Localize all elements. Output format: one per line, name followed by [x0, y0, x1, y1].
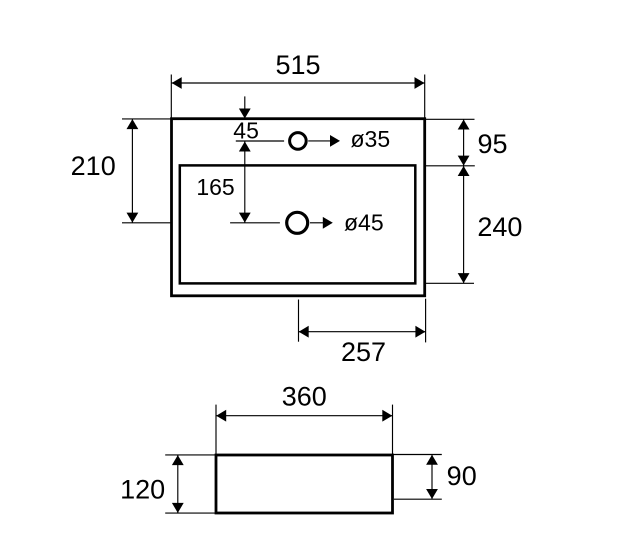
dimension 515 right arrowhead	[415, 77, 425, 89]
dimension 95 top arrowhead	[458, 120, 470, 130]
dimension 95 value label	[477, 129, 507, 159]
ø35 leader arrowhead	[330, 135, 340, 147]
dimension 257 extension line right	[425, 299, 427, 343]
dimension 360 right arrowhead	[382, 410, 392, 422]
dimension 240 bottom arrowhead	[458, 273, 470, 283]
dimension 210 extension line bottom	[122, 222, 172, 224]
dimension 120 dimension line	[177, 455, 179, 513]
dimension 515 dimension line	[172, 82, 425, 84]
dimension 165 top arrowhead	[239, 142, 251, 152]
ø45 value label	[344, 209, 384, 235]
dimension 120 value label	[120, 474, 165, 504]
dimension 240 value label	[477, 212, 522, 242]
dimension 515 left arrowhead	[172, 77, 182, 89]
dimension 120 bottom arrowhead	[172, 503, 184, 513]
dimension 360 extension line right	[392, 405, 394, 455]
dimension 45 arrowhead pointing down to top edge	[239, 109, 251, 119]
svg-text:360: 360	[282, 382, 327, 412]
dimension 45 value label	[233, 117, 259, 143]
dimension 120 top arrowhead	[172, 455, 184, 465]
dimension 257 value label	[341, 337, 386, 367]
basin outer rectangle (top view)	[172, 119, 425, 296]
ø45 leader arrowhead	[323, 217, 333, 229]
dimension 90 extension line bottom	[394, 498, 442, 500]
pedestal rectangle (front view)	[216, 455, 393, 513]
dimension 165 bottom arrowhead	[239, 213, 251, 223]
dimension 257 left arrowhead	[299, 326, 309, 338]
dimension 515 value label	[275, 50, 320, 80]
drain hole circle ø45	[287, 212, 308, 233]
svg-text:240: 240	[477, 212, 522, 242]
dimension 90 dimension line	[431, 455, 433, 500]
dimension 360 extension line left	[215, 405, 217, 455]
tap hole circle ø35	[290, 133, 307, 150]
dimension 120 extension line bottom	[165, 512, 216, 514]
dimension 257 extension line left	[298, 300, 300, 342]
dimension 210 dimension line	[131, 119, 133, 223]
ø35 leader line from hole	[308, 140, 331, 142]
dimension 90 extension line top	[393, 454, 442, 456]
centerline through ø45 hole	[230, 222, 280, 224]
dimension 240 dimension line	[463, 166, 465, 283]
dimension 90 bottom arrowhead	[426, 489, 438, 499]
svg-text:165: 165	[196, 174, 234, 200]
ø45 leader line from hole	[310, 222, 324, 224]
dimension 120 extension line top	[165, 454, 216, 456]
dimension 95 extension line top	[425, 118, 475, 120]
dimension 210 value label	[71, 151, 116, 181]
dimension 45 leader line above top edge	[244, 96, 246, 118]
dimension 360 value label	[282, 382, 327, 412]
dimension 360 left arrowhead	[216, 410, 226, 422]
dimension 515 extension line left	[170, 75, 172, 119]
dimension 360 dimension line	[216, 415, 393, 417]
dimension 210 bottom arrowhead	[127, 213, 139, 223]
svg-text:ø45: ø45	[344, 209, 384, 235]
dimension 257 dimension line	[299, 331, 426, 333]
svg-text:90: 90	[447, 461, 477, 491]
svg-text:95: 95	[477, 129, 507, 159]
dimension 95 bottom arrowhead	[458, 156, 470, 166]
dimension 90 top arrowhead	[426, 455, 438, 465]
dimension 90 value label	[447, 461, 477, 491]
svg-text:ø35: ø35	[351, 126, 391, 152]
svg-text:257: 257	[341, 337, 386, 367]
dimension 257 right arrowhead	[415, 326, 425, 338]
svg-text:210: 210	[71, 151, 116, 181]
dimension 165 value label	[196, 174, 234, 200]
svg-text:120: 120	[120, 474, 165, 504]
dimension 95 extension line bottom	[425, 165, 475, 167]
dimension 240 extension line bottom	[425, 282, 474, 284]
dimension 210 extension line top	[122, 118, 172, 120]
svg-text:45: 45	[233, 117, 259, 143]
dimension 515 extension line right	[424, 75, 426, 119]
dimension 240 top arrowhead	[458, 166, 470, 176]
dimension 210 top arrowhead	[127, 119, 139, 129]
dimension 165 dimension line	[244, 141, 246, 223]
centerline through ø35 hole	[236, 140, 284, 142]
ø35 value label	[351, 126, 391, 152]
dimension 95 dimension line	[463, 119, 465, 166]
svg-text:515: 515	[275, 50, 320, 80]
basin inner rim rectangle (top view)	[180, 165, 415, 283]
